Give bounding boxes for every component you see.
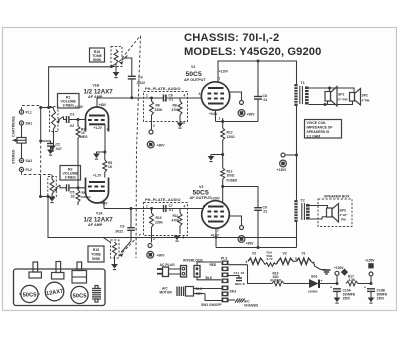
svg-text:SH1: SH1: [26, 122, 33, 126]
svg-text:470K: 470K: [172, 108, 181, 112]
svg-text:SP3: SP3: [340, 209, 346, 213]
svg-text:+: +: [364, 286, 366, 290]
svg-text:NEG B: NEG B: [235, 282, 246, 286]
svg-text:V1A: V1A: [96, 212, 103, 216]
svg-text:470K: 470K: [172, 219, 181, 223]
svg-text:3: 3: [183, 236, 185, 240]
svg-text:4: 4: [246, 260, 248, 264]
svg-text:VOICE COIL: VOICE COIL: [307, 121, 327, 125]
svg-text:150MA: 150MA: [308, 290, 319, 294]
svg-text:220K: 220K: [155, 108, 164, 112]
svg-text:.02: .02: [70, 195, 75, 199]
svg-text:AF OUTPUT: AF OUTPUT: [184, 78, 206, 82]
svg-text:+1.2V: +1.2V: [94, 126, 103, 130]
svg-text:500K: 500K: [93, 58, 102, 62]
svg-text:.0022: .0022: [136, 81, 145, 85]
svg-text:+: +: [321, 279, 323, 283]
svg-text:SP2: SP2: [362, 94, 368, 98]
svg-text:.01: .01: [169, 98, 174, 102]
svg-text:+48V: +48V: [99, 103, 107, 107]
svg-text:MODELS: Y45G20, G9200: MODELS: Y45G20, G9200: [184, 46, 321, 58]
svg-text:3.2 OHM: 3.2 OHM: [307, 134, 321, 138]
svg-text:C9: C9: [120, 225, 124, 229]
svg-text:2: 2: [153, 124, 155, 128]
svg-text:V3: V3: [283, 252, 287, 256]
svg-text:.01: .01: [263, 98, 268, 102]
svg-text:R8: R8: [173, 104, 177, 108]
svg-text:PM: PM: [341, 218, 346, 222]
svg-text:3: 3: [183, 121, 185, 125]
svg-text:SPEAKER BOX: SPEAKER BOX: [324, 195, 350, 199]
svg-text:+: +: [313, 261, 315, 265]
svg-text:+90V: +90V: [157, 144, 166, 148]
svg-text:IMPEDANCE OF: IMPEDANCE OF: [307, 126, 333, 130]
svg-text:SP1: SP1: [338, 93, 344, 97]
svg-text:50C5: 50C5: [23, 292, 38, 298]
svg-text:+95V: +95V: [247, 113, 256, 117]
svg-text:+105V: +105V: [365, 259, 375, 263]
svg-text:1: 1: [219, 117, 221, 121]
svg-text:5: 5: [203, 205, 205, 209]
svg-text:+: +: [330, 286, 332, 290]
svg-text:1: 1: [146, 93, 148, 97]
svg-text:PH–PLATE–AUDIO: PH–PLATE–AUDIO: [145, 87, 181, 91]
svg-text:7: 7: [217, 229, 219, 233]
svg-text:.047: .047: [55, 147, 62, 151]
svg-text:RED: RED: [210, 263, 217, 267]
svg-text:CHASSIS: 70I-I,-2: CHASSIS: 70I-I,-2: [184, 32, 279, 44]
svg-text:3 MEG: 3 MEG: [63, 104, 74, 108]
svg-text:MOTOR: MOTOR: [160, 291, 173, 295]
svg-text:+95V: +95V: [246, 242, 255, 246]
svg-text:3.3K: 3.3K: [349, 278, 356, 282]
svg-text:C3: C3: [70, 113, 75, 117]
svg-text:+150V: +150V: [334, 266, 344, 270]
svg-text:AF OUTPUT: AF OUTPUT: [190, 196, 212, 200]
svg-text:V2: V2: [191, 65, 195, 69]
svg-text:SG1: SG1: [311, 275, 318, 279]
svg-text:2: 2: [153, 237, 155, 241]
svg-text:220K: 220K: [155, 221, 164, 225]
svg-text:.0022: .0022: [115, 229, 124, 233]
svg-text:+1.2V: +1.2V: [93, 174, 102, 178]
svg-text:.02: .02: [69, 124, 74, 128]
svg-text:3: 3: [107, 128, 109, 132]
svg-text:V1B: V1B: [93, 84, 100, 88]
svg-text:150V: 150V: [343, 297, 352, 301]
svg-text:120Ω: 120Ω: [227, 135, 236, 139]
svg-text:+1.4V: +1.4V: [75, 105, 84, 109]
svg-text:CHASSIS: CHASSIS: [244, 303, 258, 307]
svg-text:500K: 500K: [92, 257, 101, 261]
svg-text:MEG: MEG: [80, 135, 88, 139]
svg-text:7: 7: [219, 77, 221, 81]
svg-text:C11 .02: C11 .02: [234, 271, 245, 275]
svg-text:+110V: +110V: [219, 70, 229, 74]
svg-text:V3: V3: [199, 185, 203, 189]
svg-text:4″PM: 4″PM: [362, 99, 370, 103]
svg-text:+90V: +90V: [157, 254, 166, 258]
svg-text:AF AMP: AF AMP: [88, 223, 103, 227]
svg-text:FUSED: FUSED: [271, 279, 283, 283]
svg-text:1K: 1K: [108, 165, 113, 169]
svg-text:C2: C2: [56, 142, 61, 146]
svg-text:C4: C4: [138, 76, 143, 80]
svg-text:SW1 ON/OFF: SW1 ON/OFF: [201, 303, 222, 307]
svg-text:4″x6″: 4″x6″: [340, 213, 349, 217]
svg-text:1: 1: [146, 204, 148, 208]
svg-text:FUSED: FUSED: [227, 179, 239, 183]
svg-text:PL2: PL2: [26, 168, 32, 172]
svg-text:3.7V: 3.7V: [267, 257, 273, 261]
svg-text:+130V: +130V: [277, 168, 288, 172]
svg-text:V2: V2: [252, 252, 256, 256]
svg-text:STEREO: STEREO: [12, 149, 16, 164]
svg-text:50C5: 50C5: [186, 71, 202, 78]
svg-text:50C5: 50C5: [73, 293, 88, 299]
svg-text:TONE: TONE: [91, 252, 101, 256]
svg-text:PH–PLATE–AUDIO: PH–PLATE–AUDIO: [145, 198, 181, 202]
svg-text:BLK: BLK: [206, 276, 213, 280]
svg-text:4: 4: [184, 93, 186, 97]
svg-text:SK3: SK3: [230, 290, 237, 294]
svg-text:CARTRIDGE: CARTRIDGE: [12, 116, 16, 137]
svg-text:R10: R10: [156, 216, 162, 220]
svg-text:.01: .01: [263, 210, 268, 214]
svg-text:150V: 150V: [377, 297, 386, 301]
svg-text:T1: T1: [301, 81, 305, 85]
svg-text:T2: T2: [301, 199, 305, 203]
svg-text:2: 2: [199, 92, 201, 96]
svg-text:SPEAKERS IS: SPEAKERS IS: [307, 130, 331, 134]
svg-text:PL3: PL3: [221, 256, 227, 260]
svg-text:SA2: SA2: [26, 159, 33, 163]
svg-text:R11: R11: [173, 214, 179, 218]
svg-text:4: 4: [184, 204, 186, 208]
svg-text:.01: .01: [169, 208, 174, 212]
svg-text:100Ω: 100Ω: [227, 174, 235, 178]
svg-text:R15: R15: [93, 248, 99, 252]
svg-text:PL1: PL1: [26, 111, 32, 115]
svg-text:+0.8V: +0.8V: [209, 112, 218, 116]
svg-text:3 MEG: 3 MEG: [65, 176, 76, 180]
svg-text:R6: R6: [156, 104, 160, 108]
svg-text:6¾″PM: 6¾″PM: [337, 98, 348, 102]
svg-text:V1: V1: [302, 252, 306, 256]
